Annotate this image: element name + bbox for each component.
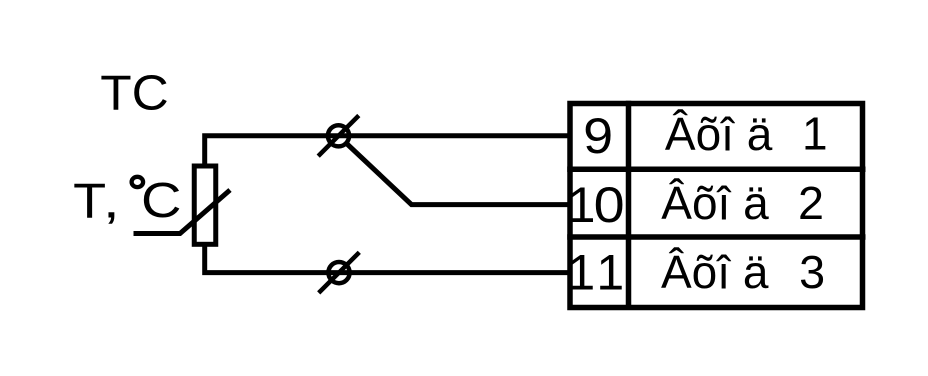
svg-text:1: 1 <box>567 245 595 301</box>
svg-text:T: T <box>73 174 106 229</box>
svg-text:Âõî ä: Âõî ä <box>661 177 769 229</box>
svg-text:2: 2 <box>798 177 824 229</box>
terminal block row divider 2 <box>567 234 865 240</box>
svg-text:C: C <box>141 173 182 228</box>
svg-text:3: 3 <box>799 246 825 298</box>
svg-text:TC: TC <box>100 66 169 121</box>
svg-text:Âõî ä: Âõî ä <box>661 246 769 298</box>
wire: bottom run from sensor bottom to terminal 11 <box>205 244 570 273</box>
degree symbol circle <box>132 177 144 187</box>
svg-text:,: , <box>103 173 120 229</box>
svg-text:1: 1 <box>802 108 828 160</box>
svg-text:1: 1 <box>596 245 624 301</box>
svg-text:1: 1 <box>568 177 596 233</box>
svg-text:0: 0 <box>594 177 625 233</box>
RTD sensor body (resistor rectangle) <box>194 166 216 244</box>
svg-text:Âõî ä: Âõî ä <box>665 108 773 160</box>
RTD variability stroke (diagonal with foot) <box>134 190 231 234</box>
terminal block row divider 1 <box>567 166 865 172</box>
terminal block outline <box>570 104 863 308</box>
wire: top run from sensor top to terminal 9 <box>205 136 570 164</box>
junction circle on bottom wire <box>328 262 349 283</box>
slash through bottom junction circle <box>319 252 360 293</box>
terminal block column divider <box>626 101 632 307</box>
wire: branch from top junction to terminal 10 <box>346 143 571 205</box>
slash through top junction circle <box>318 116 359 157</box>
svg-text:9: 9 <box>583 108 613 164</box>
junction circle on top wire <box>328 125 349 146</box>
